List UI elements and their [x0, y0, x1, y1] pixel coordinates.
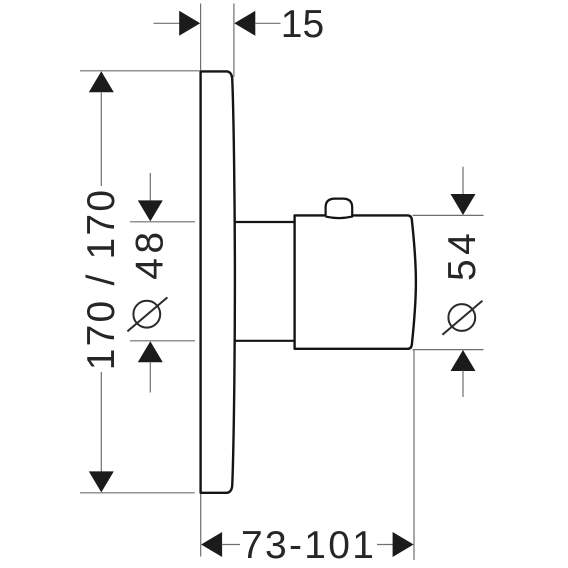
15 left arrowhead pointing right — [179, 11, 200, 36]
handle knob body (54 dia) — [295, 215, 416, 348]
73-101 dimension line right segment — [377, 544, 393, 546]
svg-text:15: 15 — [281, 3, 324, 46]
extension line left (73-101 dim, below plate) — [200, 494, 202, 557]
svg-text:54: 54 — [441, 229, 484, 281]
73-101 left arrowhead pointing left — [201, 532, 222, 557]
diameter symbol circle for 48 — [133, 301, 160, 328]
170/170 bottom extension tick — [80, 492, 195, 494]
svg-text:170 / 170: 170 / 170 — [80, 188, 123, 370]
170/170 top extension tick — [80, 70, 199, 72]
dia48 top extension tick — [130, 221, 195, 223]
15 dimension line left leader — [154, 22, 180, 24]
dia48 upper arrowhead pointing down — [138, 200, 163, 221]
dia54 lower arrowhead pointing up — [451, 350, 476, 371]
dia54 upper dimension line — [462, 167, 464, 195]
wall plate (escutcheon side profile) — [201, 71, 235, 492]
dia54 lower dimension line — [462, 371, 464, 398]
dia48 lower arrowhead pointing up — [138, 341, 163, 362]
15 right arrowhead pointing left — [234, 11, 255, 36]
diameter symbol slash for 48 — [127, 297, 167, 331]
dia48 upper dimension line — [149, 173, 151, 201]
170/170 dimension line lower segment — [100, 372, 102, 472]
dia54 top extension tick — [413, 214, 484, 216]
170/170 top arrowhead pointing up — [89, 71, 114, 92]
valve neck sleeve (48 dia section) — [234, 222, 295, 341]
extension line right (15 dim) — [233, 4, 235, 78]
diameter symbol circle for 54 — [448, 304, 475, 331]
15 dimension line right leader — [255, 22, 281, 24]
170/170 dimension line upper segment — [100, 92, 102, 186]
svg-text:48: 48 — [129, 227, 172, 279]
svg-text:73-101: 73-101 — [241, 524, 376, 567]
extension line right (73-101 dim, below knob) — [413, 350, 415, 560]
dia54 upper arrowhead pointing down — [451, 194, 476, 215]
small button nub on top of knob — [326, 199, 353, 219]
170/170 bottom arrowhead pointing down — [89, 471, 114, 492]
dia48 lower dimension line — [149, 362, 151, 393]
dia48 bottom extension tick — [130, 340, 195, 342]
73-101 right arrowhead pointing right — [393, 532, 414, 557]
dia54 bottom extension tick — [413, 349, 484, 351]
diameter symbol slash for 54 — [442, 301, 482, 335]
extension line left (plate thickness, 15 dim) — [200, 4, 202, 71]
73-101 dimension line left segment — [222, 544, 240, 546]
